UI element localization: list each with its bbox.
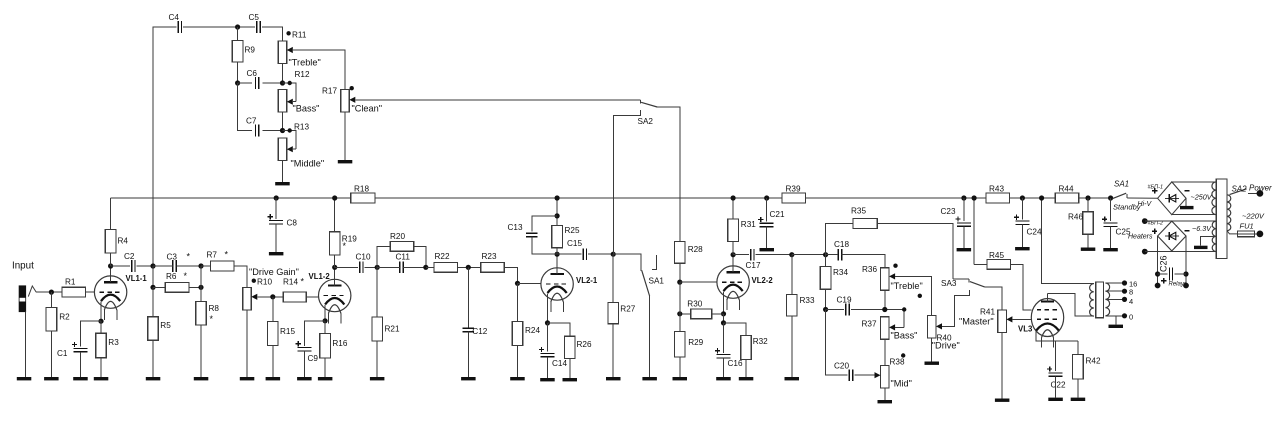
PT heater winding: [1212, 221, 1216, 251]
svg-text:R11: R11: [292, 31, 307, 40]
node (R33 tap): [789, 252, 794, 257]
ground (C22): [1048, 398, 1063, 401]
node (C24 tap): [1020, 195, 1025, 200]
resistor R16: [320, 334, 348, 359]
wire (R26 to ground): [569, 358, 571, 378]
wire (C12 branch): [467, 267, 469, 328]
wire (R38 to ground): [884, 388, 886, 400]
capacitor C7: [246, 117, 259, 137]
svg-text:SA3: SA3: [941, 279, 957, 288]
svg-text:C26: C26: [1159, 255, 1169, 272]
svg-text:C21: C21: [770, 210, 785, 219]
capacitor C14: [539, 347, 568, 368]
node (R9 top): [235, 24, 240, 29]
resistor R2: [46, 308, 70, 332]
svg-text:R17: R17: [322, 87, 337, 96]
ground (R24): [510, 377, 525, 380]
terminal (mains L): [1257, 190, 1264, 197]
wire (C17 to R33): [756, 254, 792, 256]
node (C7 row right): [280, 128, 285, 133]
triode VL2-2: [717, 265, 773, 310]
node (VL1-2 anode): [332, 265, 337, 270]
label ~250V: [1191, 193, 1213, 202]
svg-text:"Drive Gain": "Drive Gain": [249, 267, 299, 277]
svg-text:C9: C9: [308, 354, 319, 363]
svg-text:*: *: [187, 252, 191, 262]
wire (R2 to ground): [50, 331, 52, 377]
ground (R15): [266, 377, 281, 380]
wire (VL1-2 anode): [334, 267, 336, 285]
svg-text:C19: C19: [837, 296, 852, 305]
svg-text:R45: R45: [989, 251, 1004, 260]
node (R37 top): [882, 307, 887, 312]
node (VL2-1 grid): [515, 281, 520, 286]
resistor R6: [165, 271, 189, 292]
svg-text:Heaters: Heaters: [1128, 234, 1153, 241]
node (R25 rail): [555, 195, 560, 200]
label plus BR1: [1152, 188, 1157, 193]
wire (B+ rail mid2): [806, 197, 986, 199]
potentiometer R10 Drive Gain: [243, 278, 273, 310]
switch SA2 (channel): [614, 100, 680, 254]
wire (C3/R6 to R8): [200, 266, 202, 302]
wire (VL1-1 anode): [110, 266, 112, 282]
svg-text:C2: C2: [124, 252, 135, 261]
triode VL2-1: [541, 267, 598, 312]
wire (R34 bottom): [825, 289, 827, 309]
svg-text:R38: R38: [890, 358, 905, 367]
node (C3 right): [198, 263, 203, 268]
ground (OT): [1109, 325, 1124, 328]
wire (BR1 AC top): [1172, 181, 1216, 183]
resistor R5: [148, 317, 172, 341]
svg-text:VL3: VL3: [1018, 325, 1033, 334]
capacitor C5: [249, 13, 261, 33]
wire (C5 to R11): [262, 27, 283, 41]
bridge rectifier BR2: [1158, 221, 1186, 251]
svg-text:"Treble": "Treble": [891, 281, 923, 291]
wire (R11 bottom): [282, 64, 284, 84]
wire (cathode to C14): [547, 323, 549, 352]
svg-text:R7: R7: [207, 251, 218, 260]
wire (C3 leads): [153, 265, 201, 267]
capacitor C25: [1102, 217, 1131, 237]
svg-text:"Drive": "Drive": [932, 341, 960, 351]
ground (SA1): [642, 377, 657, 380]
ground (C23): [957, 248, 972, 251]
svg-text:R37: R37: [862, 320, 877, 329]
svg-text:*: *: [210, 314, 214, 324]
wire (R15 to ground): [272, 346, 274, 378]
wire (R36 bottom): [884, 290, 886, 309]
ground (C14): [540, 378, 555, 381]
svg-text:*: *: [225, 250, 229, 260]
label SA1 standby: [1114, 180, 1129, 189]
wire (C12 to ground): [467, 332, 469, 377]
label Hi-V: [1138, 201, 1153, 208]
node (R30 right): [721, 311, 726, 316]
label SA1: [649, 277, 665, 286]
ground (C9): [297, 377, 312, 380]
svg-text:C4: C4: [169, 13, 180, 22]
wire (R37 to R38): [884, 339, 886, 365]
label Treble: [289, 58, 321, 68]
capacitor C24: [1014, 215, 1042, 237]
node (C6 row right): [280, 80, 285, 85]
wire (rail to R45): [974, 263, 987, 265]
resistor R31: [728, 219, 756, 242]
svg-text:SA1: SA1: [649, 277, 665, 286]
wire (anode to C10): [335, 266, 358, 268]
terminal (relay minus): [1183, 283, 1189, 289]
capacitor C21: [758, 210, 785, 227]
power transformer core: [1216, 179, 1227, 258]
capacitor C3: [167, 252, 191, 272]
wire (cathode to C9): [304, 321, 325, 346]
svg-text:C5: C5: [249, 13, 260, 22]
node (C25 tap): [1108, 195, 1113, 200]
label plus BR2: [1152, 229, 1157, 234]
ground (R13): [275, 182, 290, 185]
ground (R17): [338, 160, 353, 163]
wire (R9 line to C7): [238, 83, 252, 131]
svg-text:"Bass": "Bass": [293, 104, 320, 114]
label Power: [1249, 184, 1272, 193]
switch SA1 open contact: [652, 255, 657, 270]
svg-text:SA2: SA2: [638, 117, 654, 126]
capacitor C10: [356, 253, 371, 274]
svg-text:R46: R46: [1068, 213, 1083, 222]
node (R31 rail): [731, 195, 736, 200]
potentiometer R13 Middle: [278, 123, 309, 161]
node (C23 tap): [961, 195, 966, 200]
ground (C24): [1015, 247, 1030, 250]
wiper R11 (to R17 top): [287, 47, 345, 90]
wire (C25 to ground): [1110, 226, 1112, 248]
svg-text:~220V: ~220V: [1242, 212, 1265, 221]
node (C12 tap): [466, 265, 471, 270]
wire (R24 to ground): [517, 346, 519, 377]
svg-text:R15: R15: [280, 327, 295, 336]
wire (R35 to SA3): [877, 224, 953, 279]
potentiometer R41 Master: [998, 310, 1007, 333]
ground (R26): [563, 378, 578, 381]
capacitor C9: [296, 341, 319, 363]
output transformer core: [1096, 282, 1104, 318]
wire (R42 branch): [1077, 341, 1079, 355]
potentiometer R17 Clean: [322, 86, 354, 112]
ground (R21): [370, 377, 385, 380]
wire (R28 to grid node): [679, 263, 681, 282]
wire (B+ rail left): [111, 197, 351, 199]
wiper loop R37: [889, 307, 906, 330]
wire (VL2-2 anode): [732, 255, 734, 272]
wire (VL3 anode to OT): [1048, 294, 1094, 317]
wire (BR2 AC top): [1145, 220, 1216, 222]
wire (cathode to R3): [100, 321, 102, 333]
node (C19 row): [823, 307, 828, 312]
svg-text:C16: C16: [728, 359, 743, 368]
svg-text:R20: R20: [390, 232, 405, 241]
svg-text:VL2-2: VL2-2: [752, 276, 774, 285]
svg-text:R2: R2: [59, 313, 70, 322]
svg-text:C12: C12: [472, 327, 487, 336]
svg-text:R14: R14: [283, 278, 298, 287]
svg-text:"Bass": "Bass": [891, 331, 918, 341]
pentode VL3: [1018, 294, 1064, 348]
wire (B+ rail right): [1079, 197, 1112, 199]
svg-text:R36: R36: [862, 265, 877, 274]
resistor R22: [434, 252, 458, 272]
wire (R20 loop right): [414, 246, 426, 267]
resistor R4: [105, 230, 128, 254]
wire (BR1 minus stub): [1185, 198, 1187, 206]
capacitor C22: [1047, 366, 1066, 389]
label Standby: [1113, 203, 1142, 212]
potentiometer R11 Treble: [278, 31, 307, 64]
svg-text:FU1: FU1: [1240, 222, 1254, 231]
resistor R46: [1068, 212, 1093, 235]
potentiometer R36 Treble: [862, 264, 898, 291]
svg-text:R35: R35: [851, 207, 866, 216]
ground (R3): [94, 377, 109, 380]
wire (R25 to rail): [556, 198, 558, 225]
node (C21 tap): [764, 195, 769, 200]
wire (C24 lead): [1021, 198, 1023, 219]
terminal (mains N): [1257, 231, 1264, 238]
node (C8 tap): [274, 195, 279, 200]
resistor R20: [390, 232, 414, 251]
resistor R7: [207, 250, 235, 271]
svg-text:C24: C24: [1027, 228, 1042, 237]
label R41: [980, 308, 995, 317]
potentiometer R37 Bass: [862, 317, 890, 340]
label Drive Gain: [249, 267, 299, 277]
OT tap 4: [1105, 297, 1133, 306]
svg-text:R22: R22: [435, 252, 450, 261]
OT primary winding: [1090, 284, 1094, 316]
wiper loop R13: [283, 128, 297, 152]
capacitor C4: [169, 13, 182, 33]
svg-text:SA1: SA1: [1114, 180, 1129, 189]
ground (C25): [1103, 248, 1118, 251]
svg-text:R25: R25: [565, 226, 580, 235]
triode VL1-1: [94, 274, 147, 320]
capacitor C18: [834, 240, 849, 261]
svg-text:R16: R16: [332, 339, 347, 348]
svg-text:Input: Input: [12, 261, 34, 272]
svg-text:C14: C14: [552, 359, 567, 368]
svg-text:R39: R39: [786, 185, 801, 194]
resistor R3: [96, 333, 120, 358]
wire (jack to R1): [36, 291, 62, 293]
svg-text:"Master": "Master": [959, 317, 994, 327]
label SA3: [941, 279, 957, 288]
terminal (heater top): [1142, 218, 1148, 224]
wire (R32 to ground): [745, 359, 747, 377]
wire (R2 branch): [50, 292, 52, 308]
wire (C25 lead): [1110, 198, 1112, 221]
wire (VL2-2 cathode): [723, 292, 725, 314]
node (R25/C13 top): [555, 213, 560, 218]
wire (anode to R19): [334, 255, 336, 267]
capacitor C12: [463, 327, 488, 336]
wire (R16 to ground): [324, 358, 326, 377]
jack tip contact: [28, 286, 36, 297]
label FU1: [1240, 222, 1254, 231]
resistor R1: [62, 278, 86, 298]
svg-text:"Treble": "Treble": [289, 58, 321, 68]
resistor R45: [987, 251, 1011, 269]
ground (BR1 minus): [1180, 206, 1194, 209]
ground (C8): [269, 252, 284, 255]
OT tap 8: [1105, 288, 1133, 297]
ground (input jack): [17, 377, 32, 380]
ground (R40): [925, 362, 940, 365]
wire (grid lead VL2-2): [680, 281, 717, 283]
wire (R40 to ground): [931, 338, 933, 362]
wire (R3 to ground): [100, 358, 102, 377]
resistor R34: [820, 266, 848, 289]
svg-text:C8: C8: [287, 219, 298, 228]
resistor R42: [1073, 355, 1101, 379]
svg-text:R42: R42: [1086, 357, 1101, 366]
wire (C2 to rail node): [137, 265, 153, 267]
node (C11 right): [423, 265, 428, 270]
ground (R42): [1071, 398, 1086, 401]
svg-text:R23: R23: [482, 252, 497, 261]
capacitor C11: [396, 253, 411, 274]
svg-text:C11: C11: [396, 253, 411, 262]
label Bass: [293, 104, 320, 114]
wire (R17 to ground): [344, 112, 346, 160]
wire (anode to C2): [111, 265, 130, 267]
wire (C11 leads): [377, 266, 426, 268]
wire (R45 to VL3 screen): [1011, 264, 1032, 310]
label minus BR2: [1185, 230, 1190, 232]
label Relays: [1169, 282, 1187, 288]
node (VL1-1 cathode): [98, 319, 103, 324]
resistor R8: [196, 302, 220, 326]
resistor R33: [787, 295, 815, 316]
svg-text:VL1-1: VL1-1: [126, 274, 148, 283]
node (C26 right): [1183, 271, 1188, 276]
wire (C4 to C5): [183, 26, 255, 28]
svg-text:C13: C13: [508, 223, 523, 232]
label ~6.3V: [1192, 224, 1212, 233]
wire (C15 to SA line): [588, 253, 613, 255]
wiper loop R12: [283, 81, 297, 105]
resistor R21: [372, 317, 400, 341]
resistor R14: [283, 277, 306, 302]
node (OT B+ rail): [1039, 195, 1044, 200]
node (VL2-2 grid): [677, 280, 682, 285]
potentiometer R12 Bass: [278, 70, 310, 112]
capacitor C1: [57, 342, 88, 358]
wire (R33 to ground): [791, 316, 793, 377]
svg-text:R34: R34: [833, 268, 848, 277]
ground (R29): [673, 377, 688, 380]
wire (R4 to B+ rail): [110, 198, 112, 230]
svg-text:~6.3V: ~6.3V: [1192, 224, 1212, 233]
wire (anode to R31): [732, 242, 734, 255]
input jack XS1: [19, 286, 26, 377]
node (R45 rail): [972, 195, 977, 200]
wire (R7 to R10 top): [234, 266, 247, 287]
wire (C24 to ground): [1021, 225, 1023, 248]
wire (B+ rail mid3): [1010, 197, 1056, 199]
triode VL1-2: [309, 272, 351, 324]
svg-text:C3: C3: [167, 253, 178, 262]
wire (C9 to ground): [303, 351, 305, 377]
wire (R15 branch): [272, 297, 274, 322]
svg-text:~250V: ~250V: [1191, 193, 1213, 202]
svg-text:C7: C7: [246, 117, 257, 126]
wire (C23 to ground): [963, 226, 965, 248]
wire (C18 leads): [826, 255, 885, 268]
node (R19 rail): [332, 195, 337, 200]
node (VL2-1 anode): [555, 252, 560, 257]
resistor R24: [512, 321, 540, 345]
wire (R30 right lead): [712, 313, 724, 315]
switch SA2 Power: [1230, 189, 1247, 195]
resistor R15: [268, 322, 296, 346]
label Mid: [891, 379, 912, 389]
wire (R42 to ground): [1077, 379, 1079, 398]
wiper R17 (to SA2): [349, 97, 640, 103]
wire (cathode to C1): [81, 321, 102, 346]
node (R15 tap): [270, 294, 275, 299]
node (C16/R32): [721, 320, 726, 325]
svg-text:C6: C6: [247, 69, 258, 78]
wiper R10: [251, 294, 283, 300]
wire (C22 branch): [1055, 341, 1057, 371]
ground (R41): [995, 399, 1010, 402]
svg-text:C1: C1: [57, 349, 68, 358]
wire (anode to C15): [557, 253, 581, 255]
node (R6 right): [198, 285, 203, 290]
svg-text:C22: C22: [1051, 381, 1066, 390]
svg-text:R43: R43: [989, 185, 1004, 194]
potentiometer R38 Mid: [881, 353, 906, 388]
wire (R33 node to R34 node): [792, 254, 826, 256]
label Middle: [291, 159, 325, 169]
wire (R23 to VL2-1 grid): [504, 267, 517, 283]
svg-text:C23: C23: [941, 207, 956, 216]
wire (R31 to rail): [732, 198, 734, 219]
wire (C13 loop left): [532, 216, 557, 232]
wire (C22 to ground): [1055, 376, 1057, 397]
svg-text:*: *: [184, 271, 188, 281]
wire (R9 top lead): [237, 27, 239, 41]
resistor R35: [851, 207, 877, 229]
wire (R13 to ground): [282, 161, 284, 183]
svg-text:R28: R28: [688, 245, 703, 254]
resistor R32: [741, 336, 768, 360]
ground (R10): [240, 377, 255, 380]
ground (R33): [785, 377, 800, 380]
PT HV winding: [1212, 182, 1216, 215]
label Clean: [352, 104, 383, 114]
ground (R5): [146, 377, 161, 380]
svg-text:R26: R26: [577, 340, 592, 349]
label minus BR1: [1184, 190, 1189, 192]
svg-text:R29: R29: [688, 338, 703, 347]
node (R6 left): [150, 285, 155, 290]
wire (grid node to R29): [679, 282, 681, 331]
ground (R16): [318, 377, 333, 380]
svg-text:VL2-1: VL2-1: [576, 276, 598, 285]
